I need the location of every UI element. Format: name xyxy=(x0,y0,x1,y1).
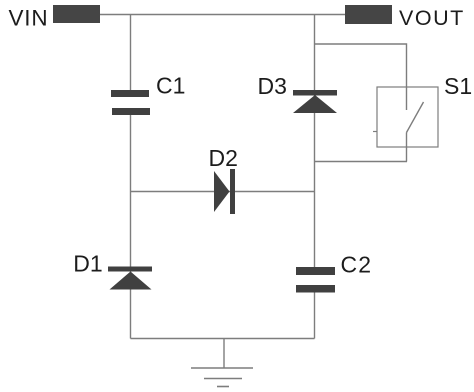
svg-text:C1: C1 xyxy=(156,73,185,99)
svg-text:VIN: VIN xyxy=(9,6,49,31)
svg-text:VOUT: VOUT xyxy=(399,6,465,30)
svg-text:C2: C2 xyxy=(341,251,373,277)
svg-text:D3: D3 xyxy=(258,73,287,99)
svg-text:D1: D1 xyxy=(73,251,102,277)
svg-text:S1: S1 xyxy=(444,73,472,99)
svg-text:D2: D2 xyxy=(209,145,238,171)
